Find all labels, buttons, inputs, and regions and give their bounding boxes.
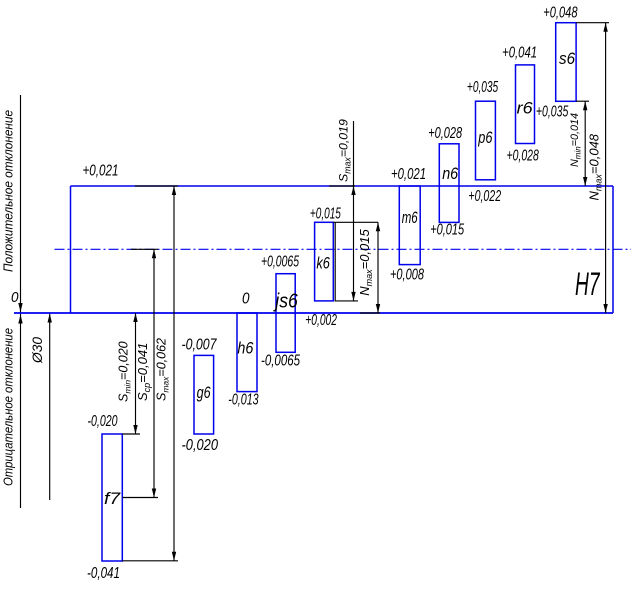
svg-text:-0,020: -0,020 bbox=[88, 413, 118, 430]
tolerance zone h6 bbox=[237, 313, 257, 392]
svg-text:+0,015: +0,015 bbox=[430, 222, 464, 239]
svg-text:m6: m6 bbox=[402, 208, 418, 227]
tolerance zone js6 bbox=[276, 274, 295, 353]
svg-text:k6: k6 bbox=[316, 254, 330, 273]
svg-text:H7: H7 bbox=[575, 266, 600, 302]
svg-text:+0,0065: +0,0065 bbox=[261, 254, 299, 271]
svg-text:+0,048: +0,048 bbox=[543, 5, 577, 22]
dimension S_max=0,019 for H7/k6 bbox=[329, 121, 358, 301]
svg-text:r6: r6 bbox=[517, 99, 534, 118]
svg-text:0: 0 bbox=[11, 289, 19, 306]
svg-text:p6: p6 bbox=[478, 128, 493, 147]
nominal size dimension line bbox=[48, 313, 52, 500]
deviation axis line bbox=[18, 95, 22, 508]
svg-text:+0,021: +0,021 bbox=[83, 163, 119, 180]
tolerance zone g6 bbox=[194, 355, 214, 434]
svg-text:+0,028: +0,028 bbox=[428, 125, 462, 142]
svg-text:+0,035: +0,035 bbox=[536, 104, 568, 121]
svg-text:+0,002: +0,002 bbox=[305, 312, 337, 329]
H7 box left edge bbox=[70, 186, 72, 313]
H7 box right edge bbox=[612, 186, 614, 313]
center dash-dot line of H7 bbox=[55, 248, 632, 250]
dimension N_max=0,048 for H7/s6 bbox=[576, 23, 609, 313]
tolerance zone s6 bbox=[556, 23, 576, 102]
svg-text:Отрицательное отклонение: Отрицательное отклонение bbox=[1, 328, 16, 486]
svg-text:f7: f7 bbox=[104, 489, 121, 508]
tolerance zone n6 bbox=[439, 144, 459, 223]
svg-text:+0,015: +0,015 bbox=[310, 206, 341, 223]
svg-text:-0,013: -0,013 bbox=[228, 392, 258, 409]
zero line bbox=[14, 312, 613, 314]
dimension S_min=0,020 for H7/f7 bbox=[122, 313, 140, 434]
svg-text:-0,007: -0,007 bbox=[182, 337, 218, 354]
svg-text:+0,008: +0,008 bbox=[390, 267, 424, 284]
svg-text:+0,021: +0,021 bbox=[391, 166, 426, 183]
svg-text:-0,020: -0,020 bbox=[182, 437, 219, 454]
svg-text:g6: g6 bbox=[197, 383, 211, 402]
dimension N_min=0,014 for H7/s6 bbox=[576, 101, 589, 186]
svg-text:Ø30: Ø30 bbox=[30, 337, 45, 365]
svg-text:h6: h6 bbox=[237, 339, 253, 358]
svg-text:-0,041: -0,041 bbox=[87, 565, 120, 582]
dimension S_cp=0,041 for H7/f7 bbox=[122, 249, 158, 497]
tolerance zone k6 bbox=[315, 222, 334, 301]
svg-text:0: 0 bbox=[242, 291, 250, 308]
svg-text:js6: js6 bbox=[273, 291, 299, 313]
svg-text:+0,041: +0,041 bbox=[502, 45, 537, 62]
tolerance zone m6 bbox=[399, 186, 420, 265]
dimension S_max=0,062 for H7/f7 bbox=[122, 186, 178, 561]
svg-text:Положительное отклонение: Положительное отклонение bbox=[1, 110, 16, 272]
svg-text:+0,035: +0,035 bbox=[467, 79, 498, 96]
svg-text:s6: s6 bbox=[559, 49, 575, 68]
svg-text:n6: n6 bbox=[442, 164, 458, 183]
H7 upper line +0,021 bbox=[71, 185, 614, 187]
tolerance zone f7 bbox=[102, 434, 122, 561]
svg-text:-0,0065: -0,0065 bbox=[261, 353, 300, 370]
tolerance zone p6 bbox=[476, 101, 496, 180]
svg-text:+0,028: +0,028 bbox=[507, 148, 539, 165]
tolerance zone r6 bbox=[516, 65, 535, 144]
dimension N_max=0,015 for H7/k6 bbox=[333, 222, 380, 313]
svg-text:+0,022: +0,022 bbox=[468, 188, 501, 205]
